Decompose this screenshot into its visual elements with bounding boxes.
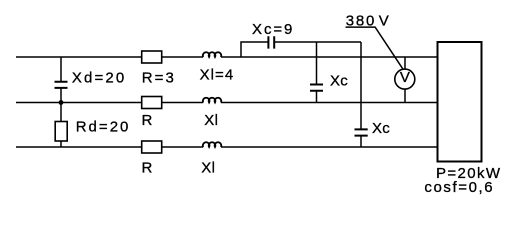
svg-text:Rd=20: Rd=20 <box>76 118 129 135</box>
svg-text:Xd=20: Xd=20 <box>72 70 124 87</box>
svg-text:Xl: Xl <box>201 159 215 176</box>
svg-text:R: R <box>142 112 153 129</box>
svg-text:380: 380 <box>346 13 375 30</box>
svg-text:Xc: Xc <box>372 120 390 137</box>
svg-text:V: V <box>400 69 410 86</box>
svg-text:V: V <box>379 13 389 30</box>
svg-text:R: R <box>142 159 153 176</box>
svg-text:cosf=0,6: cosf=0,6 <box>424 179 492 196</box>
svg-text:Xc: Xc <box>330 73 348 90</box>
svg-text:Xl=4: Xl=4 <box>200 66 234 83</box>
svg-text:Xl: Xl <box>204 112 218 129</box>
svg-text:R=3: R=3 <box>142 70 174 87</box>
